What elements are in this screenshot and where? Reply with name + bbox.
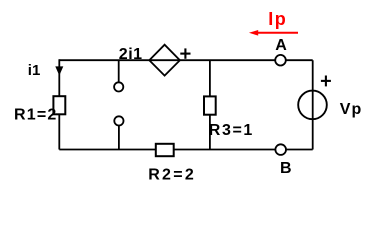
resistor R3 bbox=[204, 96, 216, 114]
current arrow i1 bbox=[55, 66, 63, 75]
svg-text:R1=2: R1=2 bbox=[14, 107, 58, 124]
dependent source 2i1 bbox=[149, 45, 180, 76]
node B bbox=[275, 144, 286, 155]
node A bbox=[275, 55, 286, 66]
svg-text:2i1: 2i1 bbox=[119, 46, 143, 63]
svg-text:R3=1: R3=1 bbox=[209, 122, 254, 139]
wire stub port top bbox=[118, 60, 120, 82]
port terminal top bbox=[114, 82, 123, 91]
svg-text:i1: i1 bbox=[28, 62, 41, 79]
port terminal bottom bbox=[114, 116, 123, 125]
arrow Ip bbox=[249, 30, 298, 36]
svg-text:A: A bbox=[275, 37, 287, 54]
wire top bbox=[59, 59, 312, 61]
voltage source Vp bbox=[298, 91, 327, 120]
svg-text:Ip: Ip bbox=[268, 9, 287, 29]
plus sign Vp bbox=[321, 76, 331, 87]
wire left bbox=[58, 59, 60, 149]
wire right bbox=[312, 60, 314, 149]
svg-text:R2=2: R2=2 bbox=[148, 166, 196, 183]
svg-text:B: B bbox=[280, 160, 292, 177]
plus sign dependent source bbox=[180, 48, 190, 58]
wire bottom bbox=[59, 149, 312, 151]
svg-text:Vp: Vp bbox=[340, 101, 363, 118]
wire R3 branch bbox=[209, 60, 211, 149]
resistor R1 bbox=[53, 96, 65, 114]
resistor R2 bbox=[156, 144, 174, 156]
wire stub port bottom bbox=[118, 125, 120, 149]
